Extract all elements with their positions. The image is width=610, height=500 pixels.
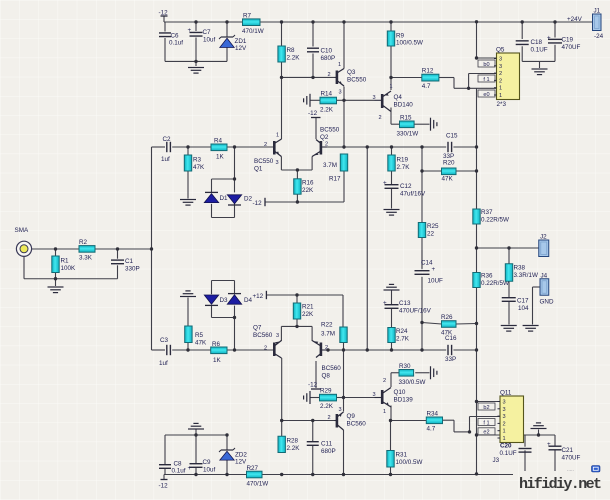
svg-text:BC560: BC560 bbox=[322, 365, 342, 372]
capacitor C21 bbox=[547, 441, 581, 462]
svg-text:3: 3 bbox=[503, 414, 506, 420]
ground (inverted) bbox=[180, 291, 196, 297]
svg-text:ZD1: ZD1 bbox=[235, 38, 247, 45]
resistor R30 bbox=[399, 363, 426, 386]
svg-text:1uf: 1uf bbox=[159, 360, 168, 367]
svg-text:47K: 47K bbox=[193, 164, 205, 171]
wire Q11 right side / C20 C21 bbox=[524, 430, 556, 472]
svg-text:2: 2 bbox=[325, 345, 328, 351]
svg-text:22K: 22K bbox=[302, 311, 314, 318]
svg-text:10uf: 10uf bbox=[203, 467, 216, 474]
svg-text:.....: ..... bbox=[567, 467, 574, 473]
capacitor C7 bbox=[188, 27, 216, 44]
svg-text:Q3: Q3 bbox=[347, 69, 356, 76]
svg-text:2: 2 bbox=[383, 378, 386, 384]
wire Q1 collector bbox=[281, 77, 283, 139]
svg-text:+: + bbox=[188, 27, 192, 34]
net label f 1 bbox=[478, 419, 495, 427]
ground bbox=[188, 68, 204, 74]
svg-text:Q10: Q10 bbox=[394, 389, 406, 396]
svg-text:C21: C21 bbox=[562, 447, 574, 454]
wire R24 C13 column bbox=[391, 291, 393, 351]
transistor Q1 bbox=[254, 133, 282, 173]
svg-text:R37: R37 bbox=[481, 209, 493, 216]
svg-text:1: 1 bbox=[338, 62, 341, 68]
svg-text:C7: C7 bbox=[203, 29, 212, 36]
wire feedback column x=367 bbox=[366, 147, 368, 350]
net label f 1 bbox=[478, 75, 495, 83]
zener diode ZD1 bbox=[219, 35, 247, 52]
wire main wire (bottom half, y=350) bbox=[152, 298, 477, 351]
zener diode ZD2 bbox=[219, 448, 247, 466]
svg-text:3: 3 bbox=[499, 64, 502, 70]
resistor R12 bbox=[422, 68, 439, 91]
svg-text:680P: 680P bbox=[321, 448, 336, 455]
ground (inverted) bbox=[188, 423, 204, 429]
wire zobel column x=422 bbox=[422, 147, 477, 350]
svg-text:R16: R16 bbox=[302, 180, 314, 187]
wire GND connector lead bbox=[533, 287, 541, 325]
svg-text:2: 2 bbox=[379, 115, 382, 121]
svg-text:BC550: BC550 bbox=[320, 127, 340, 134]
svg-text:R38: R38 bbox=[514, 265, 526, 272]
capacitor C17 bbox=[502, 298, 529, 313]
svg-text:e2: e2 bbox=[483, 430, 489, 436]
wire -12 top supply column and bottom bbox=[165, 22, 227, 66]
svg-text:ZD2: ZD2 bbox=[235, 452, 247, 459]
wire Q4 collector to R15 bbox=[391, 108, 430, 125]
wire main wire (top half, y=147) bbox=[152, 147, 477, 199]
svg-text:1: 1 bbox=[503, 429, 506, 435]
svg-text:hifidiy.net: hifidiy.net bbox=[519, 476, 602, 493]
ground (inverted) bbox=[384, 284, 400, 290]
resistor R9 bbox=[387, 31, 423, 47]
wire C14 top connection bbox=[421, 250, 423, 268]
resistor R3 bbox=[184, 155, 205, 171]
svg-text:+12: +12 bbox=[253, 293, 264, 300]
svg-text:330P: 330P bbox=[125, 266, 140, 273]
wire Q11 pin stubs bbox=[470, 402, 501, 436]
wire R9 column / Q4 emitter node bbox=[390, 22, 392, 90]
ground bbox=[523, 326, 539, 332]
svg-text:+: + bbox=[547, 441, 551, 448]
svg-text:R14: R14 bbox=[321, 91, 333, 98]
svg-text:0.1uf: 0.1uf bbox=[169, 40, 183, 47]
svg-text:C17: C17 bbox=[517, 298, 529, 305]
wire R8 / C10 column to Q3 base bbox=[282, 22, 335, 77]
svg-text:Q1: Q1 bbox=[254, 166, 263, 173]
wire Q10 collector to R30 bbox=[391, 373, 430, 387]
svg-text:2: 2 bbox=[499, 71, 502, 77]
transistor Q4 bbox=[373, 84, 414, 121]
svg-text:R1: R1 bbox=[61, 258, 70, 265]
power port +12 (mid rail) bbox=[253, 291, 267, 300]
IC Q5 output pair bbox=[494, 47, 520, 109]
wire diode clamp D3 D4 bbox=[212, 281, 235, 351]
wire +12 mid rail bbox=[266, 295, 343, 327]
resistor R27 bbox=[247, 465, 269, 488]
svg-text:470/1W: 470/1W bbox=[242, 28, 264, 35]
wire R12 to Q5 base bbox=[391, 78, 469, 89]
capacitor C6 bbox=[159, 33, 183, 47]
svg-text:-12: -12 bbox=[308, 382, 318, 389]
svg-text:C2: C2 bbox=[163, 136, 172, 143]
connector J1 bbox=[593, 8, 604, 41]
ground (rotated) bbox=[304, 391, 310, 404]
svg-text:3: 3 bbox=[503, 400, 506, 406]
svg-text:330/0.5W: 330/0.5W bbox=[399, 379, 426, 386]
power port -12 (mid rail) bbox=[253, 198, 266, 207]
capacitor C16 bbox=[445, 335, 457, 363]
net label b2 bbox=[478, 403, 495, 411]
svg-text:+24V: +24V bbox=[567, 16, 583, 23]
diode D2 bbox=[227, 195, 252, 205]
transistor Q9 bbox=[328, 407, 367, 430]
svg-text:2*3: 2*3 bbox=[497, 101, 507, 108]
svg-text:BD140: BD140 bbox=[394, 102, 414, 109]
resistor R20 bbox=[442, 160, 457, 183]
net label b0 bbox=[478, 60, 495, 68]
svg-text:R6: R6 bbox=[212, 341, 221, 348]
svg-text:680P: 680P bbox=[321, 55, 336, 62]
svg-text:SMA: SMA bbox=[15, 227, 29, 234]
resistor R25 bbox=[418, 223, 439, 238]
wire R38 C17 column bbox=[508, 281, 510, 324]
svg-text:+: + bbox=[188, 465, 192, 472]
svg-text:BC550: BC550 bbox=[254, 158, 274, 165]
svg-text:C3: C3 bbox=[160, 337, 169, 344]
ground bbox=[48, 287, 64, 293]
svg-text:2: 2 bbox=[328, 72, 331, 78]
svg-text:Q11: Q11 bbox=[500, 390, 512, 397]
svg-text:22: 22 bbox=[427, 231, 435, 238]
svg-text:R30: R30 bbox=[399, 363, 411, 370]
wire diff pair emitter rail (bottom) bbox=[281, 319, 312, 341]
svg-text:C19: C19 bbox=[562, 37, 574, 44]
svg-text:GND: GND bbox=[540, 299, 554, 306]
IC Q11 output pair bbox=[498, 390, 524, 443]
svg-text:1: 1 bbox=[390, 84, 393, 90]
svg-text:R26: R26 bbox=[441, 314, 453, 321]
svg-text:J4: J4 bbox=[541, 273, 548, 280]
resistor R5 bbox=[185, 326, 207, 347]
svg-text:Q5: Q5 bbox=[496, 47, 505, 54]
svg-text:BC550: BC550 bbox=[347, 77, 367, 84]
svg-text:C11: C11 bbox=[321, 441, 333, 448]
svg-text:1: 1 bbox=[499, 86, 502, 92]
wire Q3 emitter / R14 / R17 column bbox=[310, 22, 375, 202]
svg-text:Q7: Q7 bbox=[253, 325, 262, 332]
capacitor C8 bbox=[159, 461, 186, 475]
svg-text:12V: 12V bbox=[235, 45, 247, 52]
svg-text:2.7K: 2.7K bbox=[396, 336, 410, 343]
wire -24V bottom rail bbox=[164, 475, 513, 481]
svg-text:0.1UF: 0.1UF bbox=[500, 450, 517, 457]
wire Q2 collector to -12 port bbox=[315, 118, 317, 139]
resistor R7 bbox=[242, 13, 264, 36]
wire C11 column bbox=[312, 421, 314, 475]
svg-text:330/1W: 330/1W bbox=[397, 131, 419, 138]
ground bbox=[384, 210, 400, 216]
capacitor C10 bbox=[307, 48, 335, 63]
resistor R28 bbox=[278, 436, 300, 452]
svg-text:1: 1 bbox=[499, 93, 502, 99]
svg-text:2.2K: 2.2K bbox=[320, 403, 334, 410]
resistor R4 bbox=[211, 138, 227, 161]
capacitor C2 bbox=[161, 136, 171, 163]
svg-text:104: 104 bbox=[518, 305, 529, 312]
svg-text:C10: C10 bbox=[321, 48, 333, 55]
svg-text:3.3K: 3.3K bbox=[79, 255, 93, 262]
svg-text:R27: R27 bbox=[247, 465, 259, 472]
diode D3 bbox=[204, 295, 228, 305]
net label e2 bbox=[478, 428, 495, 436]
wire Q10 emitter / R31 column bbox=[390, 406, 393, 475]
capacitor C9 bbox=[188, 459, 216, 474]
transistor Q8 bbox=[312, 341, 341, 380]
svg-text:47uf/16V: 47uf/16V bbox=[400, 191, 426, 198]
svg-text:Q8: Q8 bbox=[322, 373, 331, 380]
svg-text:R19: R19 bbox=[397, 157, 409, 164]
ground bbox=[180, 200, 196, 206]
svg-text:R3: R3 bbox=[193, 157, 202, 164]
capacitor C1 bbox=[111, 258, 140, 273]
svg-text:Q9: Q9 bbox=[347, 413, 356, 420]
wire output to J2 bbox=[477, 248, 539, 264]
svg-text:1K: 1K bbox=[216, 154, 225, 161]
resistor R17 bbox=[323, 154, 348, 183]
svg-text:1: 1 bbox=[276, 133, 279, 139]
svg-text:0.22R/5W: 0.22R/5W bbox=[481, 217, 509, 224]
svg-text:2.2K: 2.2K bbox=[287, 55, 301, 62]
svg-text:1: 1 bbox=[503, 436, 506, 442]
svg-text:3: 3 bbox=[276, 160, 279, 166]
svg-text:R8: R8 bbox=[287, 47, 296, 54]
resistor R22 bbox=[321, 322, 347, 343]
svg-text:R36: R36 bbox=[481, 273, 493, 280]
svg-text:Q2: Q2 bbox=[320, 134, 329, 141]
svg-text:3: 3 bbox=[503, 407, 506, 413]
svg-text:2: 2 bbox=[264, 142, 267, 148]
capacitor C19 bbox=[547, 35, 581, 52]
connector SMA input bbox=[16, 241, 31, 256]
svg-text:-12: -12 bbox=[159, 483, 169, 490]
svg-text:C18: C18 bbox=[531, 39, 543, 46]
connector J2 bbox=[539, 234, 549, 257]
svg-text:2: 2 bbox=[503, 421, 506, 427]
svg-text:BC560: BC560 bbox=[347, 421, 367, 428]
svg-text:2: 2 bbox=[499, 78, 502, 84]
svg-text:Q4: Q4 bbox=[394, 94, 403, 101]
wire R19 C12 column bbox=[391, 147, 393, 209]
svg-text:33P: 33P bbox=[443, 153, 454, 160]
svg-text:10UF: 10UF bbox=[428, 278, 444, 285]
svg-text:R24: R24 bbox=[396, 328, 408, 335]
svg-text:R31: R31 bbox=[396, 452, 408, 459]
transistor Q3 bbox=[328, 62, 367, 96]
svg-text:BD139: BD139 bbox=[394, 397, 414, 404]
svg-text:D3: D3 bbox=[220, 297, 229, 304]
ground (rotated) bbox=[431, 118, 437, 131]
resistor R6 bbox=[211, 341, 227, 364]
capacitor C13 bbox=[383, 300, 432, 315]
ground (rotated) bbox=[304, 94, 310, 107]
power port -12 (bottom left) bbox=[159, 480, 169, 490]
svg-text:C12: C12 bbox=[400, 183, 412, 190]
wire Q9 emitter / R22 / R29 column bbox=[310, 343, 375, 475]
svg-text:1K: 1K bbox=[213, 357, 222, 364]
capacitor C18 bbox=[516, 39, 548, 54]
svg-text:C14: C14 bbox=[421, 260, 433, 267]
svg-text:12V: 12V bbox=[235, 459, 247, 466]
wire diode clamp D1 D2 bbox=[212, 147, 235, 218]
svg-text:f 1: f 1 bbox=[483, 77, 489, 83]
svg-text:C20: C20 bbox=[500, 443, 512, 450]
svg-text:C6: C6 bbox=[171, 33, 180, 40]
svg-text:3: 3 bbox=[499, 57, 502, 63]
svg-text:2.2K: 2.2K bbox=[320, 107, 334, 114]
transistor Q2 bbox=[312, 127, 340, 157]
svg-text:R29: R29 bbox=[320, 388, 332, 395]
connector J4 bbox=[540, 273, 554, 306]
svg-text:3: 3 bbox=[339, 90, 342, 96]
svg-text:1: 1 bbox=[383, 409, 386, 415]
svg-text:b0: b0 bbox=[483, 62, 489, 68]
svg-text:3.7M: 3.7M bbox=[323, 162, 337, 169]
resistor R16 bbox=[294, 179, 314, 194]
svg-text:47K: 47K bbox=[195, 340, 207, 347]
resistor R24 bbox=[388, 328, 410, 343]
svg-text:2.2K: 2.2K bbox=[287, 445, 301, 452]
resistor R31 bbox=[387, 451, 423, 468]
resistor R26 bbox=[441, 314, 456, 337]
wire input signal bbox=[24, 249, 152, 286]
svg-text:33P: 33P bbox=[445, 356, 456, 363]
ground (inverted) bbox=[531, 423, 547, 429]
power port -12 (Q2 collector) bbox=[308, 110, 321, 118]
svg-text:b2: b2 bbox=[483, 405, 489, 411]
svg-text:-24: -24 bbox=[594, 33, 604, 40]
svg-text:100K: 100K bbox=[61, 265, 77, 272]
capacitor C11 bbox=[307, 441, 336, 456]
resistor R2 bbox=[79, 239, 95, 262]
capacitor C12 bbox=[383, 180, 426, 198]
svg-text:R22: R22 bbox=[321, 322, 333, 329]
svg-text:470/1W: 470/1W bbox=[247, 481, 269, 488]
svg-text:J3: J3 bbox=[493, 457, 500, 464]
wire -12 bottom supply columns bbox=[165, 430, 227, 475]
svg-text:R4: R4 bbox=[214, 138, 223, 145]
net label e0 bbox=[478, 90, 495, 98]
svg-text:C1: C1 bbox=[125, 258, 134, 265]
resistor R1 bbox=[52, 256, 76, 273]
svg-text:+: + bbox=[432, 266, 436, 273]
svg-text:C16: C16 bbox=[445, 335, 457, 342]
svg-text:3: 3 bbox=[373, 392, 376, 398]
svg-text:BC560: BC560 bbox=[253, 332, 273, 339]
ground bbox=[532, 69, 548, 75]
wire C18 C19 bypass at +24 bbox=[522, 22, 555, 68]
svg-text:2.7K: 2.7K bbox=[397, 164, 411, 171]
diode D4 bbox=[227, 294, 252, 305]
svg-text:R15: R15 bbox=[400, 115, 412, 122]
resistor R14 bbox=[320, 91, 337, 114]
wire Q5 pin stubs bbox=[469, 21, 497, 88]
resistor R21 bbox=[293, 303, 314, 319]
svg-text:R21: R21 bbox=[302, 304, 314, 311]
svg-text:+: + bbox=[547, 35, 551, 42]
capacitor C14 bbox=[415, 260, 444, 285]
svg-text:J1: J1 bbox=[594, 8, 601, 15]
svg-text:2: 2 bbox=[264, 346, 267, 352]
resistor R37 bbox=[473, 209, 509, 224]
wire second stage wire (bottom) bbox=[313, 420, 470, 432]
svg-text:J2: J2 bbox=[540, 234, 547, 241]
svg-text:+: + bbox=[383, 300, 387, 307]
power port -12 (Q8 collector) bbox=[308, 382, 321, 390]
svg-text:22K: 22K bbox=[302, 187, 314, 194]
svg-text:3: 3 bbox=[373, 95, 376, 101]
resistor R15 bbox=[397, 115, 419, 138]
svg-text:47K: 47K bbox=[442, 176, 454, 183]
svg-text:R9: R9 bbox=[396, 33, 405, 40]
resistor R8 bbox=[278, 46, 300, 62]
wire -12 mid rail bbox=[265, 194, 344, 202]
watermark icon bbox=[592, 466, 601, 473]
svg-text:2: 2 bbox=[325, 142, 328, 148]
svg-text:3.3R/1W: 3.3R/1W bbox=[514, 272, 539, 279]
svg-text:470UF/16V: 470UF/16V bbox=[399, 308, 432, 315]
svg-text:R2: R2 bbox=[79, 239, 88, 246]
svg-text:0.1uf: 0.1uf bbox=[172, 468, 186, 475]
svg-text:R34: R34 bbox=[427, 411, 439, 418]
resistor R36 bbox=[473, 273, 509, 288]
wire Q8 collector to -12 port bbox=[315, 361, 317, 388]
svg-text:D4: D4 bbox=[244, 297, 253, 304]
transistor Q7 bbox=[253, 325, 282, 359]
capacitor C3 bbox=[159, 337, 170, 367]
svg-text:-12: -12 bbox=[253, 200, 263, 207]
capacitor C15 bbox=[443, 133, 458, 161]
svg-text:3: 3 bbox=[339, 407, 342, 413]
svg-text:470UF: 470UF bbox=[562, 44, 581, 51]
svg-text:f 1: f 1 bbox=[483, 420, 489, 426]
svg-text:C13: C13 bbox=[399, 300, 411, 307]
svg-text:3.7M: 3.7M bbox=[321, 331, 335, 338]
svg-text:4.7: 4.7 bbox=[422, 83, 431, 90]
svg-text:1uf: 1uf bbox=[161, 156, 170, 163]
svg-text:470UF: 470UF bbox=[562, 455, 581, 462]
resistor R38 bbox=[505, 264, 538, 282]
svg-text:R17: R17 bbox=[329, 176, 341, 183]
svg-text:R7: R7 bbox=[243, 13, 252, 20]
resistor R34 bbox=[426, 411, 442, 433]
svg-text:C15: C15 bbox=[446, 133, 458, 140]
resistor R19 bbox=[388, 155, 410, 171]
wire diff pair emitter rail (top) bbox=[281, 157, 312, 179]
svg-text:R12: R12 bbox=[422, 68, 434, 75]
svg-text:R28: R28 bbox=[287, 438, 299, 445]
wire input node vertical bbox=[151, 147, 153, 350]
wire +24V top rail bbox=[164, 16, 593, 22]
svg-text:0.1UF: 0.1UF bbox=[531, 47, 548, 54]
svg-text:10uf: 10uf bbox=[203, 37, 216, 44]
wire output bus (vertical) bbox=[476, 88, 478, 473]
svg-text:R25: R25 bbox=[427, 223, 439, 230]
svg-text:R20: R20 bbox=[443, 160, 455, 167]
ground (rotated) bbox=[431, 366, 437, 379]
svg-text:C8: C8 bbox=[174, 461, 183, 468]
